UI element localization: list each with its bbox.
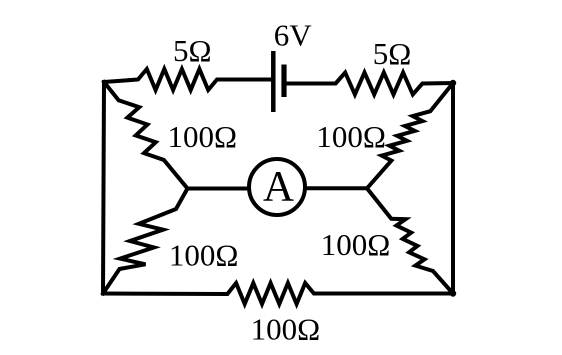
svg-text:100Ω: 100Ω <box>168 119 238 154</box>
resistor R3 100ohm upper-left diagonal <box>104 82 188 189</box>
svg-text:100Ω: 100Ω <box>169 238 239 273</box>
battery V1 6V <box>273 51 284 112</box>
svg-text:100Ω: 100Ω <box>251 312 321 347</box>
node junction dot bottom-right corner <box>450 290 456 296</box>
resistor R2 5ohm top-right <box>287 73 454 95</box>
wire ammeter to node-right <box>305 186 367 190</box>
wire left edge <box>103 82 104 294</box>
resistor R7 100ohm bottom <box>103 283 453 304</box>
svg-text:A: A <box>263 163 294 210</box>
node junction dot top-right corner <box>450 80 456 86</box>
svg-text:100Ω: 100Ω <box>321 227 391 262</box>
svg-text:5Ω: 5Ω <box>173 33 212 68</box>
resistor R5 100ohm upper-right diagonal <box>367 83 453 188</box>
resistor R6 100ohm lower-right diagonal <box>367 188 453 293</box>
ammeter A1 <box>249 159 305 215</box>
resistor R4 100ohm lower-left diagonal <box>103 189 188 294</box>
svg-text:5Ω: 5Ω <box>373 36 412 71</box>
wire right edge <box>451 83 455 294</box>
svg-text:6V: 6V <box>274 18 313 53</box>
wire node-left to ammeter <box>188 187 250 191</box>
svg-text:100Ω: 100Ω <box>316 119 386 154</box>
resistor R1 5ohm top-left <box>104 69 271 90</box>
